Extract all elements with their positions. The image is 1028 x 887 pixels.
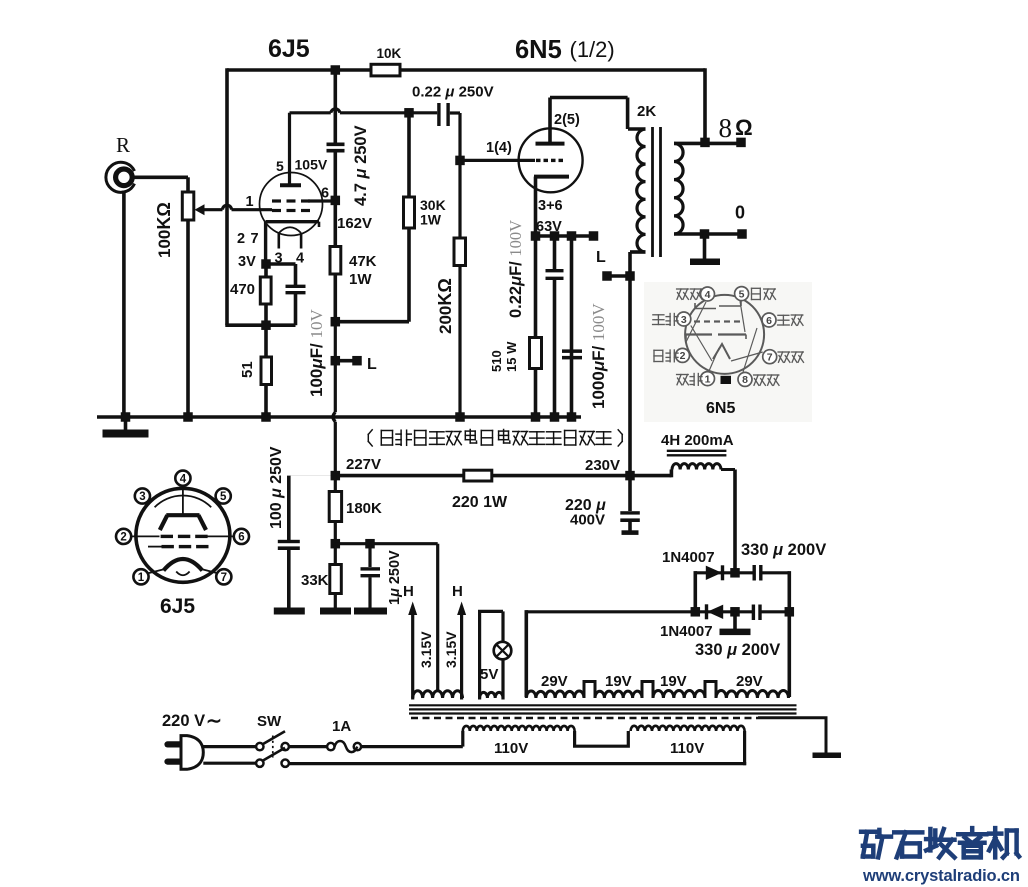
svg-text:4: 4 [705, 289, 711, 301]
node 6N5 grid junction [455, 156, 465, 166]
6N5 grid dashes [536, 159, 541, 162]
wire: 6J5 plate riser to coupling node [288, 113, 291, 185]
svg-text:470: 470 [230, 281, 255, 298]
wire: jack to pot top [134, 176, 188, 180]
6N5 pin name labels (chinese) [677, 288, 682, 290]
label caption: output stage cathode RC shared by both channels [368, 430, 372, 435]
svg-text:8: 8 [742, 374, 748, 386]
svg-text:4: 4 [180, 473, 187, 485]
HV secondary windings 29-19-19-29 [526, 691, 584, 698]
wire: secondary top to 8-ohm terminal [674, 142, 741, 146]
svg-text:180K: 180K [346, 500, 382, 517]
svg-text:5: 5 [276, 158, 284, 174]
wire: wiper line to 6J5 grid with hop over left rail [204, 208, 223, 211]
resistor 33K [334, 544, 337, 608]
svg-text:H: H [403, 583, 414, 600]
svg-text:4.7 μ 250V: 4.7 μ 250V [352, 125, 370, 206]
svg-text:H: H [452, 583, 463, 600]
svg-text:1000μF/ 100V: 1000μF/ 100V [589, 303, 608, 409]
6J5 pin circles [175, 471, 190, 486]
wire: 6J5 cathode network [264, 264, 268, 417]
svg-text:15 W: 15 W [504, 341, 519, 372]
6N5 internals [695, 308, 716, 310]
svg-text:33K: 33K [301, 572, 329, 589]
tube 6J5 triode envelope [260, 173, 323, 236]
svg-text:19V: 19V [605, 673, 632, 690]
H arrow left [411, 612, 414, 700]
junction squares on ground bus [121, 412, 131, 422]
svg-text:0: 0 [735, 203, 745, 223]
svg-text:110V: 110V [670, 740, 704, 757]
svg-text:7: 7 [221, 572, 227, 584]
svg-text:7: 7 [251, 231, 259, 247]
wire: 227V rail to 230V node [335, 474, 671, 478]
6N5 cathode bar [534, 175, 569, 179]
wire: left rail down from top rail [225, 68, 229, 325]
heater winding 3.15+3.15V [413, 691, 463, 698]
OPT core lines [651, 127, 654, 257]
wire: primary left lead to fuse [461, 731, 464, 747]
6J5 inner arc [155, 495, 212, 507]
wire: B+ line crossing ground bus (hop) down to 227V [334, 322, 337, 413]
wire: OPT primary top lead [628, 127, 646, 131]
svg-text:0.22 μ 250V: 0.22 μ 250V [412, 84, 494, 101]
svg-text:2(5): 2(5) [554, 112, 580, 128]
wire: HV winding left riser [524, 610, 528, 697]
svg-text:L: L [367, 356, 377, 373]
output transformer 2K primary coil [637, 129, 646, 252]
wire: 4.7uF net [333, 70, 337, 143]
resistor 200K leg [458, 160, 461, 417]
svg-text:227V: 227V [346, 456, 381, 473]
wire: secondary bottom to 0 terminal [674, 232, 742, 236]
wire: cap to 6N5 grid [411, 111, 437, 114]
resistor 220 1W [464, 470, 492, 481]
svg-text:1: 1 [705, 373, 711, 385]
watermark logo text [861, 830, 876, 834]
svg-text:5: 5 [739, 288, 745, 300]
6J5 grid dashes row1 -> pin6 [272, 199, 281, 202]
wire hop over 4.7uF line [331, 109, 340, 113]
svg-text:200KΩ: 200KΩ [435, 278, 455, 334]
resistor 510 15W [530, 338, 542, 369]
resistor 470 [260, 277, 271, 304]
wire: bias node to heater CT [335, 542, 437, 545]
svg-text:1W: 1W [420, 212, 442, 228]
resistor 47K 1W [330, 247, 341, 275]
wire: primary series link [575, 731, 629, 746]
node 180K/33K junction [331, 539, 341, 549]
svg-text:510: 510 [489, 350, 504, 372]
resistor 51 [261, 357, 272, 385]
wire: heater center tap drop [436, 544, 439, 692]
pot wiper arrow [195, 204, 205, 215]
capacitor 1000uF/100V leg [570, 236, 574, 417]
resistor R 10K on top rail [371, 64, 400, 76]
svg-text:220 V: 220 V [162, 712, 205, 730]
svg-text:6J5: 6J5 [160, 595, 195, 618]
capacitor 330uF top [753, 565, 756, 581]
6J5 heater arc and pin 3,4 stubs [279, 227, 301, 233]
svg-text:400V: 400V [570, 512, 605, 529]
wire: primary right lead to mains return [743, 731, 746, 765]
pilot lamp 5V [494, 642, 512, 660]
rectifier: diode 1N4007 top [693, 571, 697, 613]
svg-text:2: 2 [120, 532, 126, 544]
6J5 plate bar (pin5) [280, 183, 301, 187]
capacitor 0.22uF 250V coupling [409, 112, 437, 114]
6J5 grid dashes [131, 535, 160, 537]
svg-text:100μF/ 10V: 100μF/ 10V [307, 309, 326, 397]
svg-text:5: 5 [220, 491, 227, 503]
resistor 30K 1W [404, 197, 415, 228]
node 227V [331, 471, 341, 481]
terminal 0 [737, 229, 747, 239]
wire: jack ground drop [122, 191, 126, 417]
node pin6 junction [331, 196, 341, 206]
svg-text:6N5: 6N5 [706, 400, 735, 417]
node L stub 6J5 [331, 356, 341, 366]
node 3V cathode [261, 259, 271, 269]
capacitor 1uF/250V [368, 544, 371, 567]
svg-text:2: 2 [680, 350, 686, 362]
primary winding 110V left [463, 726, 575, 731]
terminal square 63V bus end [589, 231, 599, 241]
wire: 30K top to 0.22 node [407, 113, 411, 198]
ground below 0 terminal [703, 234, 707, 259]
svg-text:0.22μF/ 100V: 0.22μF/ 100V [506, 220, 525, 318]
resistor 180K [334, 476, 337, 544]
svg-text:∼: ∼ [206, 711, 222, 732]
svg-text:3.15V: 3.15V [443, 631, 459, 668]
wire: 47K bottom to 30K bottom [335, 320, 409, 324]
wire: 6J5 cathode drop to 3V node [264, 222, 267, 264]
wire: switch to fuse [289, 745, 327, 748]
ground symbol main [124, 417, 128, 430]
svg-text:(1/2): (1/2) [570, 37, 615, 62]
svg-text:3: 3 [681, 314, 687, 326]
svg-text:Ω: Ω [735, 115, 753, 140]
svg-text:7: 7 [767, 352, 773, 364]
svg-text:230V: 230V [585, 457, 620, 474]
svg-text:SW: SW [257, 713, 282, 730]
svg-text:3.15V: 3.15V [418, 631, 434, 668]
6J5 heater leads [147, 569, 165, 574]
svg-text:1μ 250V: 1μ 250V [387, 550, 403, 605]
svg-text:110V: 110V [494, 740, 528, 757]
svg-text:10K: 10K [377, 46, 402, 61]
wire: top rail drop to 8-ohm row [703, 68, 707, 142]
capacitor 330uF bottom [752, 605, 755, 621]
wire: cathode resistor 510 15W leg [534, 236, 538, 417]
input jack R outer [106, 162, 135, 192]
svg-text:1N4007: 1N4007 [662, 549, 715, 566]
svg-text:5V: 5V [480, 666, 498, 683]
svg-text:8: 8 [719, 113, 733, 143]
6N5 base circle [685, 295, 764, 374]
5V lamp winding [480, 692, 503, 698]
svg-text:1: 1 [138, 572, 145, 584]
6J5 cathode bar with hook [266, 220, 319, 223]
capacitor 4.7uF/250V plates [327, 143, 345, 147]
svg-text:220 1W: 220 1W [452, 494, 508, 511]
capacitor 100uF/10V bypass [266, 262, 296, 266]
transformer core laminations [409, 704, 797, 706]
node L stub psu [602, 271, 612, 281]
6J5 grid dashes row2 -> pin1/pot [272, 209, 281, 212]
svg-text:330 μ 200V: 330 μ 200V [695, 641, 780, 659]
wire: plug to switch [203, 745, 256, 748]
svg-text:L: L [596, 249, 606, 266]
wire: horizontal at y=325 to cathode net [225, 323, 295, 327]
wire: top B+ rail [227, 68, 705, 72]
wire: cathode drop to 63V bus [534, 177, 538, 236]
node 47K bottom [331, 317, 341, 327]
wire: 6N5 plate riser and top link to OPT [548, 98, 552, 144]
wire: OPT primary bottom lead [630, 250, 646, 254]
svg-text:47K: 47K [349, 253, 377, 270]
svg-text:1: 1 [246, 194, 254, 210]
OPT secondary coil [674, 143, 683, 234]
wire: pot bottom to ground bus [186, 220, 190, 417]
6N5 plate bar [536, 142, 565, 146]
wire: grid wire into 6N5 [460, 159, 535, 162]
svg-text:29V: 29V [541, 673, 568, 690]
wire: 63V cathode bus [536, 234, 594, 238]
6J5 base circle [136, 488, 230, 582]
rectifier: diode 1N4007 bottom [526, 610, 753, 613]
wire: right riser of rectifier [787, 571, 791, 697]
node junction top rail / 4.7uF [331, 65, 341, 75]
svg-text:100KΩ: 100KΩ [154, 202, 174, 258]
svg-text:6: 6 [321, 186, 329, 202]
tube 6N5 triode envelope [519, 128, 583, 192]
node 470 bottom junction [261, 320, 271, 330]
svg-text:19V: 19V [660, 673, 687, 690]
heater jumper square 6N5 base [721, 376, 732, 384]
wire: 162V line to 47K [333, 200, 337, 246]
svg-text:3+6: 3+6 [538, 198, 563, 214]
svg-text:3: 3 [139, 491, 145, 503]
svg-text:2K: 2K [637, 103, 656, 120]
6J5 cathode arch [164, 559, 203, 571]
6N5 pin circles [701, 287, 715, 301]
pin4 lead [182, 489, 184, 514]
svg-text:29V: 29V [736, 673, 763, 690]
capacitor 0.22uF/100V leg [553, 236, 557, 269]
svg-text:6: 6 [238, 532, 244, 544]
capacitor 100u/250V psu [290, 475, 335, 477]
svg-text:4H 200mA: 4H 200mA [661, 432, 734, 449]
svg-text:1W: 1W [349, 271, 372, 288]
electrostatic shield (dashed) [411, 717, 758, 719]
svg-text:6: 6 [766, 315, 772, 327]
svg-text:162V: 162V [337, 215, 372, 232]
terminal 8-ohm [736, 138, 746, 148]
svg-text:1N4007: 1N4007 [660, 623, 713, 640]
H arrow right [460, 612, 463, 700]
capacitor 220u/400V [628, 476, 632, 511]
svg-text:2: 2 [237, 231, 245, 247]
input jack R inner ring [116, 169, 133, 186]
svg-text:100 μ 250V: 100 μ 250V [268, 446, 285, 529]
node 230V [625, 471, 635, 481]
svg-text:www.crystalradio.cn: www.crystalradio.cn [862, 867, 1020, 885]
svg-text:1A: 1A [332, 718, 351, 735]
svg-text:1(4): 1(4) [486, 140, 512, 156]
6J5 plate symbol [166, 513, 199, 517]
wire: bottom ground bus [97, 415, 581, 419]
svg-text:330 μ 200V: 330 μ 200V [741, 541, 826, 559]
svg-text:3V: 3V [238, 254, 256, 270]
svg-text:6N5: 6N5 [515, 36, 562, 64]
ground below rectifier [733, 612, 737, 629]
node 0.22uF junction [404, 108, 414, 118]
svg-text:6J5: 6J5 [268, 35, 310, 63]
shield ground at right [758, 718, 826, 753]
svg-text:51: 51 [239, 361, 256, 378]
svg-text:105V: 105V [295, 157, 328, 173]
potentiometer 100K ohm [182, 192, 194, 220]
svg-text:R: R [116, 133, 130, 157]
primary winding 110V right [631, 726, 745, 731]
